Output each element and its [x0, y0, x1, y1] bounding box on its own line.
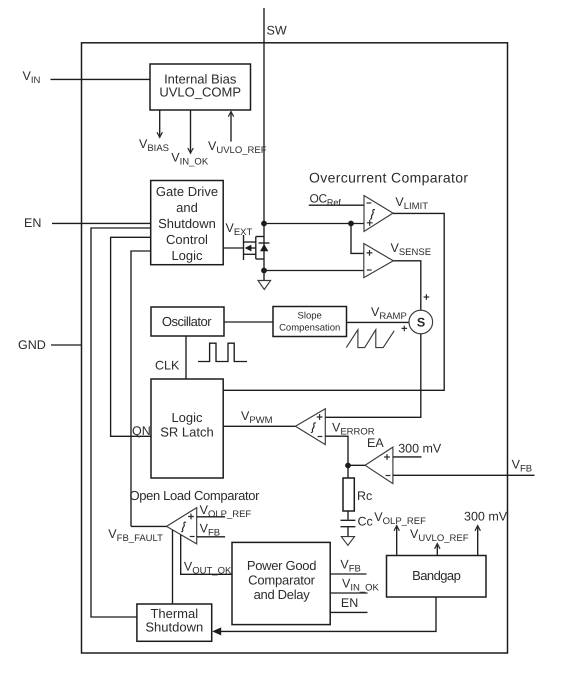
node VOLP_REF input stub: [197, 516, 225, 518]
wire 300mV arrow up from bandgap: [475, 526, 480, 556]
wire bandgap to thermal shutdown arrow: [212, 597, 436, 635]
svg-text:UVLO_COMP: UVLO_COMP: [159, 85, 241, 100]
wire SW through FET: [263, 224, 265, 271]
svg-text:CLK: CLK: [155, 359, 180, 373]
transistor Q1 external FET: [223, 235, 264, 260]
svg-text:300 mV: 300 mV: [464, 510, 508, 524]
svg-text:Cc: Cc: [358, 515, 373, 529]
wire EA 300mV reference: [393, 456, 422, 458]
wire VFB_FAULT output: [131, 525, 167, 527]
node VFB stub power good: [330, 573, 366, 575]
svg-text:Shutdown: Shutdown: [145, 620, 203, 635]
svg-text:Logic: Logic: [171, 248, 203, 263]
node junction source: [261, 268, 267, 274]
svg-text:Overcurrent Comparator: Overcurrent Comparator: [309, 170, 468, 186]
wire VUVLO_REF arrow up into Internal Bias: [228, 112, 233, 142]
label plus left of summer: [402, 326, 408, 332]
svg-text:Comparator: Comparator: [248, 573, 316, 588]
wire QN from SR latch to gate drive: [111, 237, 151, 436]
op-amp U4 error amplifier EA: [365, 447, 393, 484]
node VFB input stub: [197, 536, 225, 538]
wire VOLP_REF arrow up from bandgap: [394, 526, 399, 556]
svg-text:Gate Drive: Gate Drive: [156, 184, 218, 199]
wire source to Vsense comparator minus: [264, 270, 364, 272]
block Thermal Shutdown: [137, 604, 212, 641]
svg-text:300 mV: 300 mV: [398, 442, 442, 456]
svg-text:Power Good: Power Good: [247, 558, 316, 573]
node junction tap: [348, 221, 354, 227]
wire summer to PWM comparator plus: [325, 334, 421, 418]
op-amp U5 open load comparator: [167, 508, 197, 544]
wire VSENSE to summer: [393, 261, 421, 311]
waveform sawtooth: [346, 330, 394, 348]
resistor Rc: [343, 466, 354, 512]
wire SW net: [263, 8, 265, 224]
wire VLIMIT to SR latch: [223, 213, 444, 390]
wire VIN: [51, 78, 151, 80]
block Oscillator: [151, 307, 224, 336]
svg-text:QN: QN: [132, 424, 151, 438]
wire VFB_FAULT to gate drive: [131, 251, 151, 526]
wire GND: [51, 344, 82, 346]
wire slope compensation to summer VRAMP: [347, 321, 409, 323]
svg-text:Slope: Slope: [298, 311, 322, 322]
wire VBIAS arrow down: [157, 110, 162, 137]
ground below Cc: [341, 537, 354, 546]
svg-text:EN: EN: [341, 596, 358, 610]
wire VFB to EA minus: [393, 474, 535, 476]
svg-text:SW: SW: [267, 24, 287, 38]
op-amp U2 current sense amp: [364, 244, 394, 278]
wire comparator to thermal shutdown: [172, 530, 174, 604]
svg-text:Bandgap: Bandgap: [412, 568, 461, 583]
wire EA output to error node: [348, 464, 365, 466]
node junction SW-drain: [261, 221, 267, 227]
wire source sense to comparators: [264, 223, 364, 225]
waveform clock pulses: [198, 343, 247, 361]
svg-text:SR Latch: SR Latch: [160, 425, 213, 440]
capacitor Cc: [341, 511, 356, 536]
wire tap down to Vsense comparator plus: [351, 224, 364, 254]
wire thermal shutdown to gate drive: [91, 228, 151, 617]
wire EN: [52, 222, 151, 224]
svg-text:Control: Control: [166, 232, 208, 247]
svg-text:Oscillator: Oscillator: [162, 314, 212, 329]
op-amp U3 PWM comparator: [295, 409, 325, 445]
block Logic SR Latch: [151, 379, 223, 478]
wire VPWM latch to PWM comparator: [223, 425, 295, 427]
wire oscillator to slope compensation: [224, 321, 273, 323]
wire PWM comparator minus to error node: [325, 436, 348, 465]
svg-text:Shutdown: Shutdown: [158, 216, 216, 231]
wire CLK oscillator to SR latch: [185, 336, 187, 379]
diode body diode of Q1: [259, 243, 270, 251]
node VIN_OK stub power good: [330, 592, 367, 594]
wire VIN_OK arrow down: [188, 110, 193, 153]
svg-text:Rc: Rc: [357, 489, 372, 503]
wire OCRef: [309, 204, 364, 206]
label plus top of summer: [424, 294, 430, 300]
node junction error node: [345, 463, 351, 469]
svg-text:S: S: [417, 315, 425, 329]
outer IC boundary box: [82, 43, 508, 653]
svg-text:Logic: Logic: [171, 410, 203, 425]
op-amp U1 overcurrent comparator: [364, 196, 393, 232]
block Bandgap: [387, 556, 487, 598]
svg-text:Compensation: Compensation: [279, 323, 340, 334]
svg-text:EN: EN: [24, 216, 41, 230]
block Slope Compensation: [273, 307, 347, 337]
wire VUVLO_REF arrow up from bandgap: [435, 544, 440, 556]
block Internal Bias UVLO_COMP: [150, 64, 251, 110]
block Gate Drive and Shutdown Control Logic: [151, 181, 224, 265]
svg-text:GND: GND: [18, 338, 46, 352]
svg-text:EA: EA: [367, 436, 384, 450]
ground below Q1: [258, 271, 271, 290]
svg-text:and Delay: and Delay: [254, 587, 311, 602]
node EN stub power good: [330, 611, 367, 613]
block Power Good Comparator and Delay: [232, 542, 330, 624]
wire VOUT_OK to power good: [181, 535, 232, 575]
svg-text:Open Load Comparator: Open Load Comparator: [130, 488, 261, 503]
summer S node: [409, 310, 433, 334]
svg-text:and: and: [176, 200, 198, 215]
